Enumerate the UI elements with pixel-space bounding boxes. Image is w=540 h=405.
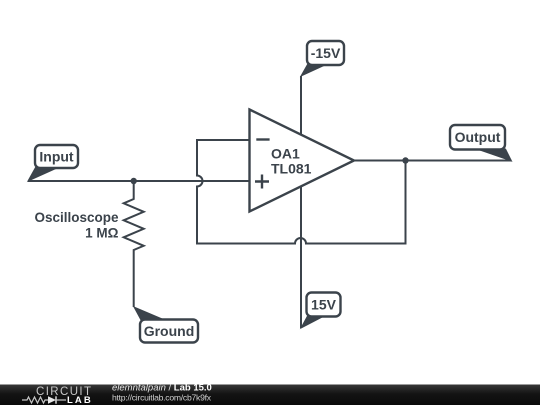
footer logo resistor-diode squiggle [22, 396, 66, 403]
op-amp minus input symbol [256, 138, 269, 140]
op-amp plus input symbol [255, 175, 269, 189]
wire: V- supply top vertical [300, 76, 302, 135]
svg-text:15V: 15V [311, 297, 337, 313]
junction J2 on output wire [402, 157, 408, 163]
node Output flag [450, 125, 512, 161]
svg-text:Output: Output [455, 129, 501, 145]
wire: V+ supply bottom vertical [300, 187, 302, 329]
wire: main input horizontal [28, 180, 250, 182]
wire: inverting input horizontal [197, 139, 250, 141]
svg-text:http://circuitlab.com/cb7k9fx: http://circuitlab.com/cb7k9fx [112, 393, 212, 403]
svg-text:TL081: TL081 [271, 161, 312, 177]
svg-text:1 MΩ: 1 MΩ [85, 226, 119, 241]
wire: feedback bottom horizontal with hop over supply wire [196, 238, 406, 244]
resistor R1 (Oscilloscope 1 MΩ) [124, 181, 144, 307]
svg-text:OA1: OA1 [271, 146, 300, 162]
node Ground flag [134, 307, 198, 343]
svg-text:Ground: Ground [144, 323, 195, 339]
svg-text:Input: Input [39, 149, 74, 165]
node Input flag [28, 145, 78, 181]
wire: feedback right vertical [405, 161, 407, 245]
junction J1 on input wire [131, 178, 137, 184]
footer bar [0, 385, 540, 405]
wire: output horizontal [354, 160, 512, 162]
svg-text:Oscilloscope: Oscilloscope [34, 210, 119, 225]
node 15V flag [301, 293, 341, 329]
label OA1 TL081 [271, 146, 312, 177]
node -15V flag [301, 41, 344, 76]
op-amp OA1 triangle [250, 110, 355, 212]
label Oscilloscope 1 MΩ [34, 210, 119, 241]
svg-text:LAB: LAB [67, 395, 93, 405]
wire: feedback left vertical with hop over input wire [197, 139, 203, 244]
svg-text:-15V: -15V [311, 45, 341, 61]
